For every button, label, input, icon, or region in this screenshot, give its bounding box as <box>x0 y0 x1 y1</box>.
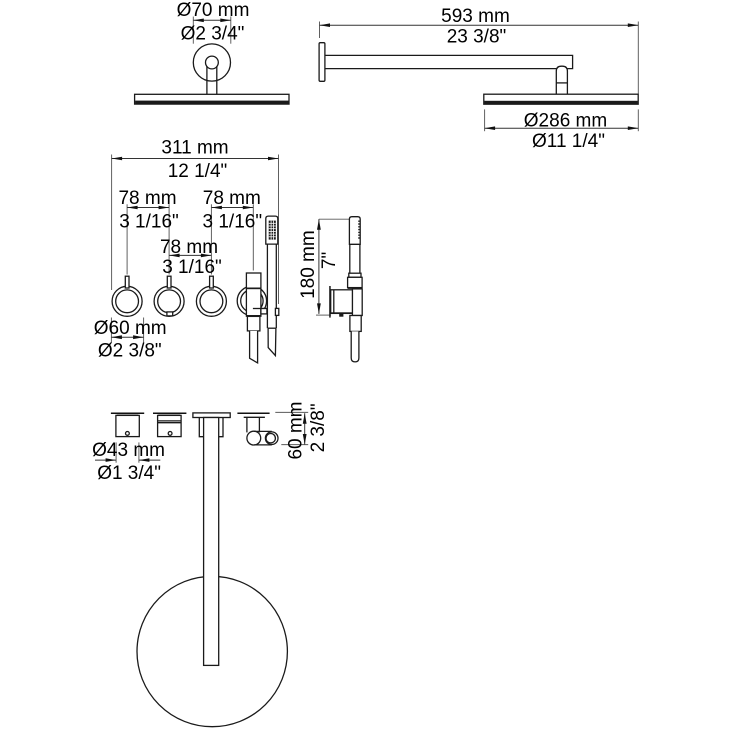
shower head disc <box>135 94 289 104</box>
spray dashes <box>358 221 360 240</box>
wall flange plate <box>319 43 325 82</box>
bracket notch <box>339 314 343 317</box>
svg-text:593 mm: 593 mm <box>441 6 510 27</box>
disc dark face <box>484 101 637 104</box>
body 2 lines <box>158 421 182 423</box>
wall line 2 <box>153 412 186 414</box>
hose <box>351 331 359 362</box>
holder tangent lines <box>254 431 272 445</box>
dim 60 line <box>304 413 306 444</box>
bracket bottom band <box>331 312 353 313</box>
wand mid <box>352 289 362 316</box>
svg-text:60 mm: 60 mm <box>286 401 307 459</box>
dim 311 line <box>112 158 279 160</box>
holder ring outer <box>265 432 278 445</box>
handle 2 outer circle <box>154 286 184 316</box>
collar 3 <box>199 418 223 437</box>
holder grip <box>247 316 260 331</box>
dim Ø70 arrows <box>193 19 204 23</box>
wall line 4 <box>237 412 269 414</box>
dim 593 extension lines <box>320 22 639 132</box>
head disc side <box>484 94 638 104</box>
shower arm <box>325 55 572 68</box>
handle 1 stem <box>125 276 129 288</box>
holder post circle <box>247 431 261 445</box>
svg-text:311 mm: 311 mm <box>161 138 228 159</box>
handle 2 stem <box>167 276 171 288</box>
ceiling plate 3 <box>193 413 230 418</box>
wall flange circle inner <box>206 56 219 69</box>
holder junction band <box>246 288 261 290</box>
dim 180 ticks <box>316 219 350 315</box>
wand side <box>350 244 360 273</box>
svg-text:180 mm: 180 mm <box>298 230 319 299</box>
handle 3 stem <box>210 276 214 288</box>
holder arm <box>261 309 267 314</box>
dim Ø43 extension lines <box>116 442 139 462</box>
handle 3 inner circle <box>200 290 223 313</box>
dim 311 arrows <box>112 157 123 161</box>
holder arm line <box>253 308 267 310</box>
handle 3 outer circle <box>196 286 226 316</box>
dim 78 B line <box>211 207 253 209</box>
svg-text:78 mm: 78 mm <box>118 188 176 209</box>
collar junction band <box>348 287 363 289</box>
dim 180 line <box>318 219 320 314</box>
handle 1 outer circle <box>112 286 142 316</box>
dim 78 A line <box>127 207 169 209</box>
bracket body <box>331 290 353 314</box>
neck 4 <box>247 417 260 432</box>
dim 311 extension lines <box>112 155 279 305</box>
handle 2 bottom tab <box>167 312 173 316</box>
handshower spray grid <box>269 221 276 240</box>
handle 2 inner circle <box>158 290 181 313</box>
svg-text:3 1/16": 3 1/16" <box>162 257 222 278</box>
handle 1 inner circle <box>116 290 139 313</box>
dim Ø286 extension line left <box>484 109 486 131</box>
flange line 2 <box>158 414 180 416</box>
svg-text:3 1/16": 3 1/16" <box>203 212 263 233</box>
holder flange outer circle <box>237 286 266 315</box>
disc dark face <box>135 101 288 104</box>
stem 3 <box>204 418 219 666</box>
svg-text:Ø2 3/4": Ø2 3/4" <box>181 23 245 44</box>
svg-text:Ø1 3/4": Ø1 3/4" <box>97 463 161 484</box>
dim 78 C line <box>169 254 211 256</box>
svg-text:Ø2 3/8": Ø2 3/8" <box>98 340 162 361</box>
joint line <box>556 82 567 84</box>
svg-text:2 3/8": 2 3/8" <box>308 403 329 452</box>
holder bottom band <box>246 315 261 316</box>
svg-text:Ø60 mm: Ø60 mm <box>94 318 167 339</box>
dim 60 ticks <box>275 412 308 444</box>
svg-text:7": 7" <box>319 252 340 269</box>
svg-text:Ø43 mm: Ø43 mm <box>92 440 165 461</box>
holder ring inner <box>266 434 275 443</box>
dim 593 line <box>320 24 639 26</box>
dim 78 extension lines (handle centers) <box>127 204 253 274</box>
wall flange circle outer <box>193 44 230 81</box>
dot 2 <box>168 432 172 436</box>
hose tab <box>275 308 278 315</box>
bracket wall plate <box>329 286 331 318</box>
dim Ø286 line <box>485 127 639 129</box>
svg-text:23 3/8": 23 3/8" <box>447 26 507 47</box>
dim Ø286 arrows <box>485 126 496 130</box>
collar <box>348 277 363 287</box>
holder wand tip <box>250 331 258 363</box>
dim Ø70 line <box>193 19 231 21</box>
handshower wand <box>267 244 276 328</box>
dim 593 arrows <box>320 23 331 27</box>
svg-text:78 mm: 78 mm <box>203 188 261 209</box>
valve body 2 <box>158 415 182 436</box>
bracket inner line <box>333 290 335 314</box>
dim Ø60 line <box>111 336 143 338</box>
plate 4 <box>244 416 265 418</box>
dim Ø60 extension lines <box>111 318 143 343</box>
holder body <box>246 273 261 316</box>
svg-text:Ø286 mm: Ø286 mm <box>524 110 607 131</box>
wall line 1 <box>111 412 144 414</box>
stem <box>207 66 217 94</box>
handshower head <box>266 216 278 244</box>
wand lower step <box>350 316 361 332</box>
holder flange inner circle <box>241 290 263 312</box>
valve body 1 <box>116 415 139 436</box>
handshower hose end <box>268 328 276 355</box>
head circle (top view) <box>137 576 287 726</box>
svg-text:78 mm: 78 mm <box>160 237 218 258</box>
flange line 1 <box>117 414 139 416</box>
wand step <box>349 273 361 277</box>
handshower head side <box>349 217 360 245</box>
dim Ø70 extension lines <box>193 17 231 44</box>
svg-text:12 1/4": 12 1/4" <box>168 161 228 182</box>
svg-text:Ø70 mm: Ø70 mm <box>177 0 250 21</box>
svg-text:3 1/16": 3 1/16" <box>119 212 179 233</box>
svg-text:Ø11 1/4": Ø11 1/4" <box>532 131 605 152</box>
dot 1 <box>126 432 130 436</box>
dim Ø43 lines <box>95 459 160 461</box>
arm ball joint dome <box>556 66 567 94</box>
